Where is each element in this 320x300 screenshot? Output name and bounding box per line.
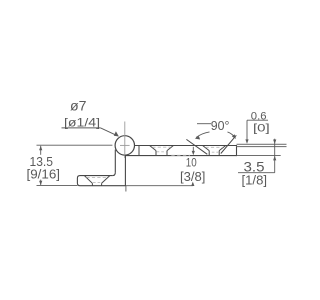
svg-text:[0]: [0] [253,122,270,134]
hole H2 hidden thread dashes upper [206,146,224,148]
left leaf foot bottom edge [80,185,126,187]
svg-text:[9/16]: [9/16] [27,167,61,181]
svg-text:[3/8]: [3/8] [180,170,205,184]
90 degree dimension arc left part [196,132,210,138]
dimension 10 extension line with arrow [192,147,194,152]
dimension ø7 leader diagonal [101,128,118,136]
hole H1 countersink left slope [150,146,156,151]
dimension 10 lower stub [192,183,194,186]
circle horizontal centerline [120,144,130,146]
left leaf inner corner radius [112,173,115,176]
foot hole bore right wall [101,183,103,185]
svg-text:0.6: 0.6 [251,110,267,122]
svg-text:90°: 90° [211,119,230,133]
dimension 13.5 line upper segment [40,146,42,155]
foot hole countersink left slope [84,176,92,184]
dimension 3.5 underline [238,172,275,174]
hole H1 countersink right slope [167,146,173,151]
hole H2 countersink right slope [219,146,226,151]
dimension 0.6 underline [247,119,268,121]
dimension 3.5 vertical line [274,139,276,173]
foot hole bore left wall [91,183,93,185]
svg-text:[1/8]: [1/8] [242,173,268,187]
hidden dashed line below leaf between holes [171,154,190,156]
hole H1 hidden thread dashes upper [152,146,171,148]
extension line from leaf top to left [37,144,113,146]
left leaf leg right edge [124,155,126,185]
dimension 10 up arrowhead [191,182,194,186]
90 degree cone right arm [221,135,237,153]
hole H2 hidden dashes lower [212,151,219,153]
right leaf top edge [135,145,237,147]
90 degree dimension arc right part [228,132,236,138]
dimension 0.6 down arrowhead [245,139,248,143]
hole H2 countersink left slope [203,146,210,151]
hole H2 bore right wall [218,151,220,156]
right leaf end edge [236,145,238,156]
leaf bottom extension to right [237,155,281,157]
svg-text:3.5: 3.5 [244,158,265,174]
left leaf foot left end with rounded corners [77,176,80,186]
foot hole hidden dashes lower [93,182,101,184]
foot hole countersink right slope [102,176,110,184]
90 degree arc right arrowhead [232,134,236,139]
leaf top reference line (lower gray) [237,146,287,148]
svg-text:[ø1/4]: [ø1/4] [64,115,100,129]
dimension 13.5 line lower segment [40,180,42,185]
dimension 3.5 up arrowhead [273,156,276,161]
knuckle circle (hinge pin barrel) [115,136,134,155]
left leaf leg outer(left) edge [114,150,116,173]
extension line from foot bottom to left [37,184,78,186]
90 degree leader line [197,123,211,125]
dimension ø7 leader underline [62,127,101,129]
hole H2 bore left wall [208,151,210,156]
90 degree arc left arrowhead [195,136,200,139]
90 degree cone left arm [186,139,207,154]
dimension 10 down arrowhead [192,151,195,155]
dimension 13.5 top arrowhead [39,146,42,151]
extension tick below foot right edge [125,186,127,192]
leaf-knuckle junction line [138,146,140,156]
hole H1 bore left wall [155,151,157,156]
circle vertical centerline [124,122,126,159]
svg-text:ø7: ø7 [70,97,87,113]
hole H1 hidden dashes lower [157,151,167,153]
dimension 3.5 down arrowhead at top [273,140,276,144]
dimension 13.5 bottom arrowhead [39,181,42,186]
foot bottom extension line to 10-dim [126,185,193,187]
right leaf bottom edge [125,155,237,157]
dimension 0.6 extension vertical [246,120,248,139]
svg-text:10: 10 [186,158,197,170]
left leaf foot top edge [80,175,112,177]
foot hole hidden thread dashes [87,176,109,178]
hole H1 bore right wall [166,151,168,156]
pin top reference line (upper gray) [237,143,287,145]
dimension ø7 leader arrowhead [114,131,119,136]
